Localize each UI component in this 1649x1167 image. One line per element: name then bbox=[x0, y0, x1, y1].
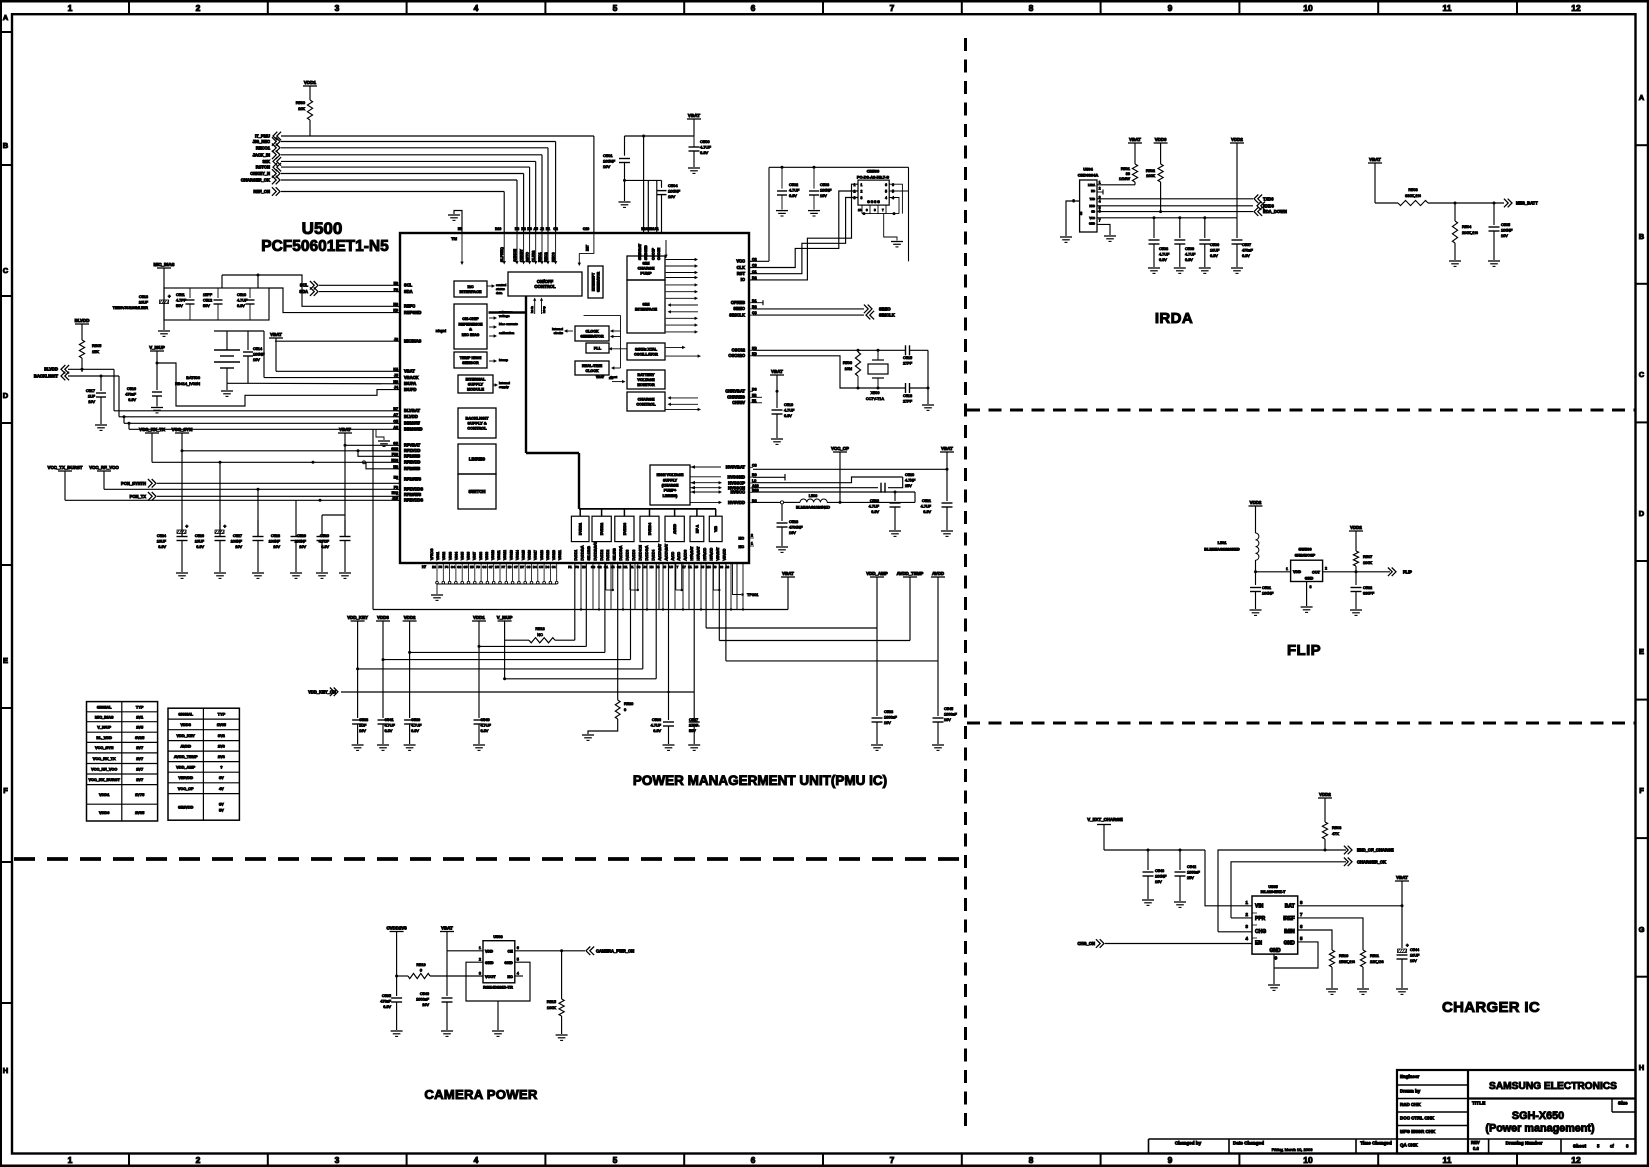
svg-text:6.3V: 6.3V bbox=[385, 729, 393, 733]
svg-text:G: G bbox=[1639, 925, 1645, 934]
svg-text:6.3V: 6.3V bbox=[1210, 254, 1218, 258]
svg-text:GND: GND bbox=[504, 961, 513, 965]
svg-text:VBAT: VBAT bbox=[688, 113, 700, 118]
svg-text:4.7NF: 4.7NF bbox=[905, 479, 916, 483]
svg-text:HFAVDD: HFAVDD bbox=[710, 547, 714, 560]
svg-text:ONKEY_N: ONKEY_N bbox=[250, 171, 270, 176]
svg-text:9: 9 bbox=[1168, 3, 1173, 13]
svg-text:SIMIO: SIMIO bbox=[733, 306, 745, 311]
svg-text:10V: 10V bbox=[88, 400, 95, 404]
svg-text:47K: 47K bbox=[1332, 831, 1339, 836]
svg-text:F5: F5 bbox=[439, 565, 443, 569]
svg-text:0.6: 0.6 bbox=[1473, 1146, 1479, 1151]
svg-text:VSS1: VSS1 bbox=[436, 552, 440, 560]
svg-text:330K,1%: 330K,1% bbox=[1405, 193, 1421, 198]
svg-text:2: 2 bbox=[196, 1155, 201, 1165]
svg-text:TYP: TYP bbox=[218, 711, 226, 716]
svg-text:15PF: 15PF bbox=[203, 293, 213, 297]
svg-text:VSS11: VSS11 bbox=[497, 550, 501, 560]
svg-text:G7: G7 bbox=[489, 565, 493, 569]
svg-text:6.3V: 6.3V bbox=[700, 150, 709, 155]
svg-text:7: 7 bbox=[890, 1155, 895, 1165]
svg-text:RF1VDD: RF1VDD bbox=[404, 448, 420, 453]
svg-text:SH248CSP: SH248CSP bbox=[1295, 553, 1316, 558]
svg-text:GENERATOR: GENERATOR bbox=[580, 335, 604, 339]
svg-text:IRDA: IRDA bbox=[1155, 310, 1193, 327]
svg-text:CHRIV: CHRIV bbox=[732, 400, 745, 405]
svg-text:VDD0: VDD0 bbox=[99, 810, 109, 815]
svg-text:bias currents: bias currents bbox=[499, 322, 518, 326]
svg-text:JACK_IN: JACK_IN bbox=[252, 152, 270, 157]
svg-text:3: 3 bbox=[335, 1155, 340, 1165]
svg-text:HIGH VOLTAGE: HIGH VOLTAGE bbox=[657, 473, 684, 477]
svg-text:VCC_RX_TX: VCC_RX_TX bbox=[93, 756, 116, 761]
svg-text:C521: C521 bbox=[922, 499, 931, 503]
svg-text:C514: C514 bbox=[253, 347, 262, 351]
svg-text:10V: 10V bbox=[299, 545, 306, 549]
svg-text:PLL: PLL bbox=[594, 346, 602, 351]
svg-text:2: 2 bbox=[1099, 187, 1101, 191]
svg-text:1V85: 1V85 bbox=[217, 722, 227, 727]
svg-text:DVDD3: DVDD3 bbox=[623, 523, 627, 535]
svg-text:htemp: htemp bbox=[499, 358, 508, 362]
svg-text:R511: R511 bbox=[1370, 953, 1379, 958]
svg-text:CN500: CN500 bbox=[867, 169, 880, 174]
svg-text:VDD2: VDD2 bbox=[1250, 500, 1262, 505]
svg-text:VBACK: VBACK bbox=[404, 375, 419, 380]
svg-text:MIC BIAS: MIC BIAS bbox=[462, 332, 480, 337]
svg-text:6.3V: 6.3V bbox=[481, 729, 489, 733]
svg-text:2: 2 bbox=[854, 190, 856, 194]
svg-text:U500: U500 bbox=[302, 219, 343, 238]
svg-text:100NF: 100NF bbox=[1262, 592, 1274, 596]
svg-text:BAT500: BAT500 bbox=[186, 375, 201, 380]
svg-text:ISUPD: ISUPD bbox=[404, 387, 417, 392]
svg-text:10V: 10V bbox=[422, 1003, 429, 1007]
svg-text:4700NF: 4700NF bbox=[789, 526, 803, 530]
svg-text:CLOCK: CLOCK bbox=[585, 329, 598, 333]
svg-text:4.7UF: 4.7UF bbox=[921, 505, 932, 509]
svg-text:Size: Size bbox=[1618, 1101, 1628, 1107]
svg-text:C501: C501 bbox=[603, 153, 613, 158]
svg-text:J4: J4 bbox=[643, 565, 647, 569]
svg-text:ONKEY: ONKEY bbox=[519, 249, 523, 262]
svg-text:C530: C530 bbox=[320, 534, 329, 538]
svg-text:OSCILLATOR: OSCILLATOR bbox=[634, 353, 658, 357]
svg-text:27PF: 27PF bbox=[903, 362, 913, 366]
svg-text:VIB: VIB bbox=[714, 526, 718, 532]
svg-text:VSS21: VSS21 bbox=[558, 550, 562, 560]
svg-text:4.7UF: 4.7UF bbox=[1185, 253, 1196, 257]
svg-text:SIMCLK: SIMCLK bbox=[729, 312, 745, 317]
svg-text:CHG: CHG bbox=[1255, 929, 1266, 935]
svg-text:REF_ON: REF_ON bbox=[253, 189, 270, 194]
svg-text:50V: 50V bbox=[203, 304, 210, 308]
svg-text:C529: C529 bbox=[297, 534, 306, 538]
svg-text:G4: G4 bbox=[451, 565, 455, 569]
svg-text:1UF: 1UF bbox=[359, 724, 367, 728]
svg-text:VSS15: VSS15 bbox=[522, 550, 526, 560]
svg-text:1: 1 bbox=[751, 542, 753, 546]
svg-text:Changed by: Changed by bbox=[1175, 1141, 1202, 1146]
svg-text:DOC CTRL CHK: DOC CTRL CHK bbox=[1400, 1116, 1435, 1121]
svg-text:C: C bbox=[1639, 370, 1645, 379]
svg-text:D5: D5 bbox=[495, 565, 499, 569]
svg-text:SEL12MB: SEL12MB bbox=[587, 546, 591, 560]
svg-text:SCL: SCL bbox=[300, 283, 309, 288]
svg-text:15K: 15K bbox=[92, 349, 99, 354]
svg-text:3V25: 3V25 bbox=[135, 735, 145, 740]
svg-text:S8: S8 bbox=[1079, 211, 1083, 215]
svg-text:VIBVDD: VIBVDD bbox=[178, 775, 193, 780]
svg-text:PUMP+: PUMP+ bbox=[664, 489, 676, 493]
svg-text:6.3V: 6.3V bbox=[196, 545, 204, 549]
svg-text:10V: 10V bbox=[253, 358, 260, 362]
svg-text:4V: 4V bbox=[219, 786, 224, 791]
svg-text:B: B bbox=[1639, 232, 1645, 241]
svg-text:C535: C535 bbox=[382, 994, 391, 998]
svg-text:16V: 16V bbox=[359, 729, 366, 733]
svg-text:SIMIO: SIMIO bbox=[879, 306, 891, 311]
svg-text:2V6: 2V6 bbox=[218, 754, 226, 759]
svg-text:CONTROL: CONTROL bbox=[534, 284, 556, 289]
svg-text:9: 9 bbox=[866, 208, 868, 212]
svg-text:Date Changed: Date Changed bbox=[1233, 1141, 1264, 1146]
svg-text:C533: C533 bbox=[884, 710, 893, 714]
svg-text:VDD_AMP: VDD_AMP bbox=[176, 765, 195, 770]
svg-text:OUT: OUT bbox=[1312, 570, 1321, 574]
svg-text:H1: H1 bbox=[624, 565, 628, 569]
svg-text:VDD2: VDD2 bbox=[1350, 525, 1362, 530]
svg-text:VCC: VCC bbox=[736, 259, 745, 264]
svg-text:GND: GND bbox=[1284, 941, 1296, 947]
svg-text:SAMSUNG ELECTRONICS: SAMSUNG ELECTRONICS bbox=[1489, 1081, 1617, 1092]
svg-text:NC: NC bbox=[739, 537, 745, 541]
svg-text:4.7UF: 4.7UF bbox=[784, 409, 795, 413]
svg-text:CVDD2V8: CVDD2V8 bbox=[386, 925, 407, 930]
svg-text:+: + bbox=[224, 524, 227, 529]
svg-text:C527: C527 bbox=[233, 534, 242, 538]
svg-text:3: 3 bbox=[335, 3, 340, 13]
svg-text:OSCCN: OSCCN bbox=[657, 247, 661, 260]
svg-text:H: H bbox=[1639, 1063, 1644, 1072]
svg-text:SW500: SW500 bbox=[1298, 547, 1312, 552]
svg-text:OSCCP: OSCCP bbox=[652, 247, 656, 260]
svg-text:VCC_CP: VCC_CP bbox=[178, 786, 194, 791]
svg-text:VCC_RX_TX: VCC_RX_TX bbox=[139, 427, 165, 432]
svg-text:V_ISUP: V_ISUP bbox=[97, 725, 111, 730]
svg-text:4.7UF: 4.7UF bbox=[789, 189, 800, 193]
svg-text:C8: C8 bbox=[752, 463, 757, 467]
svg-text:voltage: voltage bbox=[499, 314, 510, 318]
svg-text:SIMCLK: SIMCLK bbox=[879, 313, 895, 318]
svg-text:V_EXT_CHARGE: V_EXT_CHARGE bbox=[1087, 817, 1122, 822]
svg-text:C522: C522 bbox=[870, 499, 879, 503]
svg-text:G6: G6 bbox=[482, 565, 486, 569]
svg-text:C506: C506 bbox=[1210, 243, 1219, 247]
svg-text:VCC_SYN: VCC_SYN bbox=[95, 745, 114, 750]
svg-text:VCC_SYN: VCC_SYN bbox=[172, 427, 193, 432]
svg-text:QA CHK: QA CHK bbox=[1400, 1143, 1418, 1148]
svg-text:supply: supply bbox=[499, 385, 509, 389]
svg-text:C5: C5 bbox=[539, 565, 543, 569]
svg-text:int dn: int dn bbox=[530, 306, 534, 313]
svg-text:SENSOR: SENSOR bbox=[462, 360, 479, 365]
svg-text:D4: D4 bbox=[545, 565, 549, 569]
svg-text:3: 3 bbox=[854, 196, 856, 200]
svg-text:VIBVDD: VIBVDD bbox=[722, 548, 726, 561]
svg-text:data: data bbox=[496, 291, 503, 295]
svg-text:E1: E1 bbox=[752, 399, 756, 403]
svg-text:4.7UF: 4.7UF bbox=[411, 724, 422, 728]
svg-text:TXD: TXD bbox=[1090, 197, 1095, 201]
svg-text:DVDD4: DVDD4 bbox=[651, 549, 655, 560]
svg-text:10M: 10M bbox=[845, 367, 852, 371]
svg-text:2V1: 2V1 bbox=[136, 714, 144, 719]
svg-text:SIGNAL: SIGNAL bbox=[178, 711, 193, 716]
svg-text:11: 11 bbox=[1443, 1155, 1452, 1165]
svg-text:HVSVDD: HVSVDD bbox=[728, 500, 745, 505]
svg-text:CONTROL: CONTROL bbox=[636, 402, 656, 407]
svg-text:E9: E9 bbox=[582, 565, 586, 569]
svg-text:irDA_DOWN: irDA_DOWN bbox=[1263, 209, 1287, 214]
svg-text:158K,1%: 158K,1% bbox=[1339, 959, 1355, 964]
svg-text:AVDDS: AVDDS bbox=[684, 550, 688, 561]
svg-text:39: 39 bbox=[1126, 172, 1130, 176]
svg-text:C4: C4 bbox=[552, 565, 556, 569]
svg-text:C512: C512 bbox=[203, 299, 212, 303]
svg-text:6: 6 bbox=[517, 946, 519, 950]
svg-text:D: D bbox=[3, 391, 9, 400]
svg-text:VSS16: VSS16 bbox=[528, 550, 532, 560]
svg-text:4: 4 bbox=[892, 196, 894, 200]
svg-text:SCL: SCL bbox=[404, 283, 413, 288]
svg-text:VBAT: VBAT bbox=[1129, 137, 1141, 142]
svg-text:AVDDVBAT: AVDDVBAT bbox=[658, 544, 662, 561]
svg-text:clocks: clocks bbox=[554, 331, 564, 335]
svg-text:6.3V: 6.3V bbox=[383, 1005, 391, 1009]
svg-text:4: 4 bbox=[1099, 200, 1101, 204]
svg-text:C509: C509 bbox=[1185, 247, 1194, 251]
svg-text:4: 4 bbox=[517, 971, 519, 975]
svg-text:FLIP: FLIP bbox=[1403, 569, 1412, 574]
svg-text:GND: GND bbox=[1269, 948, 1281, 954]
svg-text:FLIP: FLIP bbox=[1287, 642, 1321, 659]
svg-text:DVDD3: DVDD3 bbox=[632, 549, 636, 560]
svg-text:H4: H4 bbox=[650, 565, 654, 569]
svg-text:F3: F3 bbox=[575, 565, 579, 569]
svg-text:R503: R503 bbox=[1408, 187, 1417, 192]
svg-text:R506: R506 bbox=[843, 361, 852, 365]
svg-text:VPROG: VPROG bbox=[430, 548, 434, 560]
svg-text:U504: U504 bbox=[1083, 167, 1093, 172]
svg-text:3V: 3V bbox=[219, 802, 224, 807]
svg-text:EN: EN bbox=[1255, 941, 1262, 947]
svg-text:C520: C520 bbox=[905, 473, 914, 477]
svg-text:4: 4 bbox=[474, 1155, 479, 1165]
svg-text:9: 9 bbox=[1168, 1155, 1173, 1165]
svg-text:6.3V: 6.3V bbox=[237, 304, 245, 308]
svg-text:AVDDVBAT: AVDDVBAT bbox=[664, 544, 668, 561]
svg-text:50V: 50V bbox=[689, 729, 696, 733]
svg-text:(Power management): (Power management) bbox=[1485, 1123, 1595, 1135]
svg-text:100NF: 100NF bbox=[820, 189, 832, 193]
svg-text:G3: G3 bbox=[457, 565, 461, 569]
svg-text:VSS5: VSS5 bbox=[461, 552, 465, 560]
svg-text:12: 12 bbox=[1571, 1155, 1581, 1165]
svg-text:2V7: 2V7 bbox=[136, 777, 143, 782]
svg-text:BLVDD: BLVDD bbox=[75, 318, 90, 323]
svg-text:F: F bbox=[3, 786, 8, 795]
svg-text:RF2SWS: RF2SWS bbox=[404, 492, 421, 497]
svg-text:TM: TM bbox=[451, 236, 457, 241]
svg-text:AVDD: AVDD bbox=[671, 551, 675, 560]
svg-text:F6: F6 bbox=[476, 565, 480, 569]
svg-text:MICBIAS: MICBIAS bbox=[404, 339, 422, 344]
svg-text:VSS4: VSS4 bbox=[454, 552, 458, 560]
svg-text:VDD2: VDD2 bbox=[1231, 137, 1243, 142]
svg-text:VOUT: VOUT bbox=[485, 975, 496, 979]
svg-text:100NF: 100NF bbox=[668, 189, 681, 194]
svg-text:K5: K5 bbox=[470, 565, 474, 569]
svg-text:A: A bbox=[1639, 93, 1645, 102]
svg-text:CHRREG: CHRREG bbox=[727, 395, 745, 400]
svg-text:RB414_IV02N: RB414_IV02N bbox=[175, 381, 200, 386]
svg-text:C504: C504 bbox=[668, 183, 678, 188]
svg-text:OSC32O: OSC32O bbox=[728, 353, 745, 358]
svg-text:DVDD1: DVDD1 bbox=[579, 523, 583, 535]
svg-text:SDA: SDA bbox=[404, 289, 413, 294]
svg-text:VSS17: VSS17 bbox=[534, 550, 538, 560]
svg-text:VCC_CP: VCC_CP bbox=[831, 446, 849, 451]
svg-text:PON_SYNTH: PON_SYNTH bbox=[121, 481, 146, 486]
svg-text:OSC32: OSC32 bbox=[732, 348, 746, 353]
svg-text:BATTERY: BATTERY bbox=[637, 373, 655, 377]
svg-text:10UF: 10UF bbox=[1210, 249, 1220, 253]
svg-text:4.7UF: 4.7UF bbox=[385, 724, 396, 728]
svg-text:BLM16AG102SN1D: BLM16AG102SN1D bbox=[796, 506, 830, 510]
svg-text:MODULE: MODULE bbox=[467, 387, 484, 392]
svg-text:F4: F4 bbox=[445, 565, 449, 569]
svg-text:6.3V: 6.3V bbox=[871, 510, 879, 514]
svg-text:REC2: REC2 bbox=[544, 252, 548, 262]
svg-text:CAMERA POWER: CAMERA POWER bbox=[424, 1087, 538, 1102]
svg-text:100K: 100K bbox=[1363, 560, 1372, 565]
svg-text:HFAVDD: HFAVDD bbox=[703, 547, 707, 560]
svg-text:INTERRUPT: INTERRUPT bbox=[592, 273, 596, 291]
svg-text:RECO1: RECO1 bbox=[256, 145, 271, 150]
svg-text:5: 5 bbox=[885, 190, 887, 194]
svg-text:D7: D7 bbox=[520, 565, 524, 569]
svg-text:CPRES: CPRES bbox=[731, 300, 745, 305]
svg-text:6.3V: 6.3V bbox=[784, 414, 792, 418]
svg-text:C516: C516 bbox=[127, 387, 136, 391]
svg-text:VSS9: VSS9 bbox=[485, 552, 489, 560]
svg-text:330PF: 330PF bbox=[1363, 592, 1375, 596]
svg-text:R502: R502 bbox=[1146, 169, 1155, 173]
svg-text:AUXON: AUXON bbox=[513, 249, 517, 262]
svg-text:VBAT: VBAT bbox=[596, 375, 604, 379]
svg-text:END_OF_CHARGE: END_OF_CHARGE bbox=[1357, 848, 1394, 853]
svg-text:C503: C503 bbox=[820, 183, 829, 187]
svg-text:DVDD2VBAT: DVDD2VBAT bbox=[593, 542, 597, 561]
svg-text:VCC_RX_BURST: VCC_RX_BURST bbox=[89, 777, 121, 782]
svg-text:REFGND: REFGND bbox=[404, 310, 421, 315]
svg-text:6.3V: 6.3V bbox=[1185, 258, 1193, 262]
svg-text:SUPPLY: SUPPLY bbox=[663, 478, 678, 482]
svg-text:4.7UF: 4.7UF bbox=[700, 145, 711, 150]
svg-text:D10: D10 bbox=[495, 227, 501, 231]
svg-text:VSS6: VSS6 bbox=[467, 552, 471, 560]
svg-text:Engineer: Engineer bbox=[1400, 1074, 1420, 1079]
svg-text:4: 4 bbox=[885, 196, 887, 200]
svg-text:IT_PMU: IT_PMU bbox=[255, 134, 270, 139]
svg-text:DVDD2: DVDD2 bbox=[600, 549, 604, 560]
svg-text:DVDD1VA: DVDD1VA bbox=[581, 545, 585, 561]
svg-text:6.3V: 6.3V bbox=[411, 729, 419, 733]
svg-text:1000nF: 1000nF bbox=[416, 998, 430, 1002]
svg-text:RF1SWS: RF1SWS bbox=[404, 477, 421, 482]
svg-text:PC-D6-A3-H2.7-S: PC-D6-A3-H2.7-S bbox=[857, 174, 890, 179]
svg-text:LINREG): LINREG) bbox=[663, 494, 679, 498]
svg-text:TEESVJ0J106MLE8R: TEESVJ0J106MLE8R bbox=[113, 306, 149, 310]
svg-text:CE: CE bbox=[508, 949, 514, 953]
svg-text:100K: 100K bbox=[547, 1005, 556, 1010]
svg-text:VSS13: VSS13 bbox=[509, 550, 513, 560]
svg-text:Drawing Number: Drawing Number bbox=[1506, 1141, 1543, 1146]
svg-text:10V: 10V bbox=[273, 545, 280, 549]
svg-text:C518: C518 bbox=[903, 394, 912, 398]
svg-text:VDD3: VDD3 bbox=[377, 615, 389, 620]
svg-text:VDD_KEY: VDD_KEY bbox=[177, 733, 196, 738]
svg-text:AVDD: AVDD bbox=[677, 551, 681, 560]
svg-text:1: 1 bbox=[1286, 567, 1288, 571]
svg-text:VSS12: VSS12 bbox=[503, 550, 507, 560]
svg-text:REC1: REC1 bbox=[538, 252, 542, 262]
svg-text:1: 1 bbox=[68, 1155, 73, 1165]
svg-text:R580: R580 bbox=[296, 100, 306, 105]
svg-text:VCC: VCC bbox=[1089, 216, 1095, 220]
svg-text:GND: GND bbox=[1305, 577, 1314, 581]
svg-text:2V6: 2V6 bbox=[218, 744, 226, 749]
svg-text:100NF: 100NF bbox=[1155, 875, 1167, 879]
svg-text:C6: C6 bbox=[527, 565, 531, 569]
svg-text:HFAVBAT: HFAVBAT bbox=[697, 546, 701, 560]
svg-text:C: C bbox=[3, 266, 9, 275]
svg-text:CC7V-T1A: CC7V-T1A bbox=[866, 397, 885, 401]
svg-text:G2: G2 bbox=[597, 565, 601, 569]
svg-text:E4: E4 bbox=[432, 565, 436, 569]
svg-text:6.3V: 6.3V bbox=[923, 510, 931, 514]
svg-text:PON_TX: PON_TX bbox=[130, 494, 147, 499]
svg-text:AVDD: AVDD bbox=[180, 744, 191, 749]
svg-text:C540: C540 bbox=[481, 718, 490, 722]
svg-text:TYP: TYP bbox=[136, 704, 144, 709]
svg-text:C544: C544 bbox=[1410, 948, 1419, 952]
svg-text:27PF: 27PF bbox=[903, 400, 913, 404]
svg-text:SGH-X650: SGH-X650 bbox=[1512, 1110, 1564, 1122]
svg-text:BLVDD: BLVDD bbox=[44, 367, 58, 372]
svg-text:C542: C542 bbox=[1187, 865, 1196, 869]
svg-text:2V65: 2V65 bbox=[135, 810, 145, 815]
svg-text:ISL6294IRZ-T: ISL6294IRZ-T bbox=[1261, 889, 1286, 894]
svg-text:1/16W: 1/16W bbox=[1119, 177, 1130, 181]
svg-text:3V: 3V bbox=[219, 775, 224, 780]
svg-text:100NF: 100NF bbox=[253, 353, 265, 357]
svg-text:CLOCK: CLOCK bbox=[585, 369, 598, 373]
svg-text:VCC_RF_VCO: VCC_RF_VCO bbox=[89, 465, 119, 470]
svg-text:4: 4 bbox=[474, 3, 479, 13]
